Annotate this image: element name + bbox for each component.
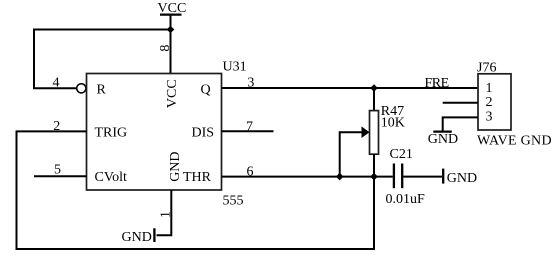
pin number 8 (rotated) [158, 45, 173, 52]
connector pin 1 label [486, 81, 493, 96]
value 10K [381, 116, 405, 131]
svg-text:Q: Q [201, 83, 211, 98]
wire TRIG pin2 left-bottom loop to THR junction [17, 131, 375, 249]
pin name R [97, 83, 107, 98]
svg-text:C21: C21 [390, 147, 413, 162]
part label WAVE GND [477, 134, 552, 149]
inverting bubble on pin 4 (R) [77, 84, 86, 93]
label C21 [390, 147, 413, 162]
pin number 7 [246, 119, 253, 134]
svg-text:GND: GND [428, 132, 458, 147]
designator U31 [223, 59, 247, 74]
pin name VCC (rotated) [165, 79, 180, 108]
pin number 5 [54, 162, 61, 177]
designator J76 [477, 60, 496, 75]
svg-text:U31: U31 [223, 59, 247, 74]
wire Q output pin 3 to J76 pin 1 [222, 87, 479, 89]
ground symbol at C21 (bar) [442, 169, 444, 184]
junction R47 bottom / THR / feedback [370, 173, 378, 181]
ground label GND at J76 [428, 132, 458, 147]
svg-text:THR: THR [183, 170, 212, 185]
ground symbol at J76 pin 3 (bar) [433, 130, 452, 132]
pin name CVolt [95, 170, 128, 185]
wire J76 pin 2 stub [443, 102, 478, 104]
pin name GND (rotated) [168, 151, 183, 181]
svg-text:555: 555 [223, 194, 244, 209]
svg-text:VCC: VCC [165, 79, 180, 108]
junction at VCC node [167, 26, 175, 34]
wire R47 top lead [373, 88, 375, 111]
svg-text:WAVE GND: WAVE GND [477, 134, 552, 149]
wire J76 pin 3 to ground [443, 117, 478, 130]
pin name THR [183, 170, 212, 185]
connector pin 3 label [486, 110, 493, 125]
op: 555 timer U31 body [87, 74, 222, 191]
svg-text:GND: GND [447, 171, 477, 186]
wire CVolt pin 5 stub [34, 175, 87, 177]
wire R47 bottom lead [373, 154, 375, 176]
svg-text:2: 2 [486, 95, 493, 110]
part number 555 [223, 194, 244, 209]
power symbol VCC [158, 1, 187, 74]
svg-text:FRE: FRE [425, 76, 449, 91]
resistor R47 body (potentiometer) [370, 111, 379, 155]
capacitor C21 plates [394, 164, 402, 189]
connector pin 2 label [486, 95, 493, 110]
pin number 1 (rotated) [159, 211, 174, 218]
svg-text:3: 3 [486, 110, 493, 125]
pin name DIS [192, 125, 215, 140]
svg-text:8: 8 [158, 45, 173, 52]
pin number 2 [53, 119, 60, 134]
svg-text:GND: GND [168, 151, 183, 181]
pin number 4 [53, 75, 60, 90]
connector J76 body [478, 74, 511, 130]
wire 555 GND pin 1 lead [157, 190, 172, 235]
svg-text:DIS: DIS [192, 125, 215, 140]
svg-text:GND: GND [122, 230, 152, 245]
ground symbol at pin 1 (bar) [153, 228, 155, 242]
svg-text:0.01uF: 0.01uF [386, 192, 426, 207]
pin number 3 [247, 75, 254, 90]
svg-text:1: 1 [486, 81, 493, 96]
wire THR pin 6 to capacitor [222, 176, 393, 178]
junction Q / R47 top [370, 84, 378, 92]
value 0.01uF [386, 192, 426, 207]
svg-text:J76: J76 [477, 60, 496, 75]
svg-text:TRIG: TRIG [95, 125, 128, 140]
wire reset loop from VCC node to pin 4 [34, 30, 171, 89]
svg-text:CVolt: CVolt [95, 170, 128, 185]
junction wiper / THR [336, 173, 344, 181]
net label FRE [425, 76, 449, 91]
potentiometer wiper arrow [340, 126, 370, 176]
wire DIS pin 7 stub [222, 130, 274, 132]
svg-text:R: R [97, 83, 107, 98]
ground label GND at pin 1 [122, 230, 152, 245]
pin name TRIG [95, 125, 128, 140]
pin name Q [201, 83, 211, 98]
svg-text:5: 5 [54, 162, 61, 177]
svg-text:10K: 10K [381, 116, 405, 131]
pin number 6 [247, 164, 254, 179]
ground label GND at C21 [447, 171, 477, 186]
svg-text:4: 4 [53, 75, 60, 90]
label R47 [381, 104, 404, 119]
wire C21 right lead to ground [403, 176, 442, 178]
